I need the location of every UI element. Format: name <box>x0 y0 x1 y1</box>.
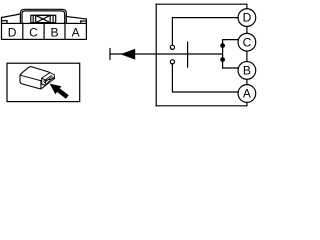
connector 3D body top-face edge <box>20 73 50 81</box>
connector left ear <box>1 18 3 24</box>
terminal block edge <box>42 78 54 80</box>
wire branch to B <box>223 67 239 69</box>
connector right shoulder <box>66 17 86 20</box>
upper contact <box>170 45 174 49</box>
connector 3D body end edge <box>40 81 42 89</box>
terminal block ribs <box>44 75 52 81</box>
switch body outline left <box>155 4 157 106</box>
wire lower contact to A <box>172 64 238 92</box>
connector hood outer wall <box>20 9 66 23</box>
svg-text:D: D <box>243 11 252 25</box>
junction dot lower <box>220 57 225 62</box>
keying X-box <box>36 15 51 22</box>
cavity divider C/B <box>43 23 45 39</box>
junction dot upper <box>220 43 225 48</box>
svg-text:D: D <box>8 25 17 39</box>
switch body outline bottom <box>156 105 247 107</box>
connector hood inner wall <box>22 11 65 24</box>
cavity divider D/C <box>22 23 24 39</box>
terminal B <box>238 62 256 80</box>
terminal A <box>238 85 256 103</box>
inset pointer arrow <box>50 84 62 95</box>
feed arrowhead <box>120 49 135 60</box>
keying band <box>31 15 56 22</box>
terminal C <box>238 33 256 51</box>
connector right ear <box>85 19 87 23</box>
junction riser <box>222 40 224 68</box>
switch body outline top <box>156 3 247 5</box>
lower contact <box>170 60 174 64</box>
svg-text:B: B <box>243 64 251 78</box>
svg-text:B: B <box>50 25 58 39</box>
connector pin-row outline <box>2 23 87 39</box>
feed end bar <box>109 49 111 60</box>
cavity divider B/A <box>64 23 66 39</box>
svg-text:A: A <box>243 87 251 101</box>
switch actuator bar <box>187 42 189 67</box>
feed wire <box>110 53 223 55</box>
svg-text:A: A <box>72 25 80 39</box>
connector 3D body silhouette <box>20 67 51 89</box>
switch body outline right segments <box>246 4 248 9</box>
svg-text:C: C <box>243 35 252 49</box>
inset frame <box>7 63 80 101</box>
connector left shoulder <box>2 14 21 18</box>
wire branch to C <box>223 39 239 41</box>
svg-text:C: C <box>29 25 38 39</box>
wire D to upper contact <box>172 18 238 45</box>
terminal block outline <box>42 73 55 85</box>
terminal D <box>238 9 256 27</box>
